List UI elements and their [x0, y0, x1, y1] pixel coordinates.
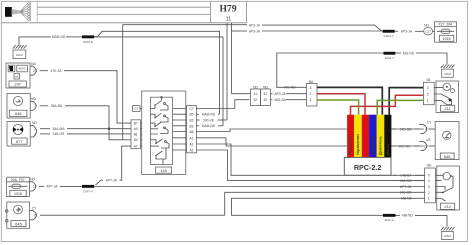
svg-text:ND: ND — [424, 23, 429, 27]
svg-text:14A-GA: 14A-GA — [400, 179, 413, 183]
svg-text:36G-BA: 36G-BA — [274, 98, 287, 102]
svg-text:C27: C27 — [425, 30, 431, 34]
wire AP3-JA (connector to BA pin2) — [232, 92, 307, 96]
fuse F27 20A box — [435, 22, 457, 42]
svg-text:1: 1 — [427, 99, 429, 103]
svg-text:CY: CY — [32, 206, 37, 210]
svg-text:B4: B4 — [426, 78, 430, 82]
wire black BA pin3 to RPC and 211 pin3 — [317, 87, 423, 114]
wire labels into 212: 14B-BJ — [393, 174, 425, 178]
wire label AP7-JA at 212 — [400, 185, 412, 189]
wire MB-ND to ground bottom right — [396, 214, 448, 227]
svg-text:MAM: MAM — [444, 234, 451, 238]
svg-text:6: 6 — [34, 214, 36, 218]
ground MAM (top right) — [441, 65, 455, 78]
svg-text:Отопитель: Отопитель — [371, 135, 375, 155]
svg-text:B3: B3 — [190, 124, 194, 128]
connector ENG-4 (black splice) — [384, 52, 396, 60]
svg-text:ND: ND — [263, 85, 268, 89]
svg-text:CAF7-4: CAF7-4 — [83, 190, 93, 194]
ground MB (bottom right) — [441, 227, 455, 240]
svg-text:23: 23 — [33, 69, 37, 73]
component 247 instrument cluster box — [6, 63, 30, 88]
svg-text:MB-ND: MB-ND — [401, 197, 412, 201]
svg-text:14D-GB: 14D-GB — [400, 127, 413, 131]
svg-text:MA: MA — [31, 97, 37, 101]
svg-text:MAM: MAM — [16, 53, 23, 57]
svg-text:645: 645 — [15, 111, 22, 116]
pins 2,3 / ND of 677 — [30, 121, 37, 137]
svg-text:AP7-JA: AP7-JA — [400, 185, 412, 189]
pin 13 / ND of F07 — [30, 177, 37, 191]
svg-text:11: 11 — [226, 17, 231, 23]
wire pin A3 to 14B-BJ run — [197, 144, 425, 175]
svg-text:ND: ND — [427, 164, 432, 168]
svg-text:B7: B7 — [134, 121, 138, 125]
inline connector R 31/32 (two halves) — [251, 85, 271, 105]
svg-text:CY: CY — [427, 121, 432, 125]
svg-text:24: 24 — [424, 144, 428, 148]
svg-text:3: 3 — [428, 185, 430, 189]
svg-text:MAM-ND: MAM-ND — [52, 35, 66, 39]
wire 300-VE riser (H79 pin to B2) — [226, 25, 228, 120]
wire 645 pin6 to 14C riser — [40, 192, 225, 215]
component 677 box — [7, 122, 30, 147]
svg-text:677: 677 — [16, 139, 23, 144]
svg-text:20A F07: 20A F07 — [11, 178, 25, 182]
connector ENM-B (black splice) — [82, 35, 94, 44]
wire 47K-1A (247 to pin B7) — [40, 69, 132, 123]
RPC-2.2 resistor legend colored bars — [347, 115, 391, 158]
svg-text:247: 247 — [14, 82, 21, 87]
svg-text:1: 1 — [428, 197, 430, 201]
wire MAM-ND branch lower (to pin B3) — [94, 37, 223, 126]
component 145 heater control unit box — [142, 91, 186, 175]
legend harness symbol box (top-left) — [1, 1, 246, 23]
145 left pin bracket B7 A4 B1 B4 A7 — [131, 120, 142, 149]
wire label 14A-GA — [393, 179, 425, 183]
wire 24B-GR (677 pin 3 to pin B1) — [40, 132, 131, 136]
svg-text:24B-GR: 24B-GR — [53, 132, 66, 136]
svg-text:B4: B4 — [134, 138, 138, 142]
wire 34C-NC label — [392, 144, 419, 148]
motor 211 heater blower box — [436, 81, 459, 113]
svg-text:MG-ND: MG-ND — [403, 51, 415, 55]
wire 36A-BA (645 to junction) — [40, 104, 132, 140]
svg-text:MAM: MAM — [444, 72, 451, 76]
svg-text:2: 2 — [310, 92, 312, 96]
svg-text:ADAC: ADAC — [18, 67, 25, 71]
svg-text:34C-NC: 34C-NC — [399, 144, 412, 148]
pin 23 / ND of 247 — [30, 62, 37, 75]
component 645 heater control (upper left) box — [7, 94, 30, 119]
wire AP7-JA (F07 to CAF7-4) — [39, 185, 82, 189]
svg-text:36A-MA: 36A-MA — [53, 127, 66, 131]
junction 36A — [108, 128, 110, 130]
svg-text:ENG-A: ENG-A — [385, 218, 394, 222]
svg-text:A6: A6 — [190, 130, 194, 134]
connector CAF3-4 (black splice) — [383, 30, 395, 38]
svg-text:AP3-JA: AP3-JA — [249, 29, 261, 33]
svg-text:ENG-4: ENG-4 — [385, 56, 394, 60]
svg-text:ND: ND — [253, 85, 258, 89]
wire pin A1 to 34C-NC run — [197, 138, 424, 146]
svg-text:2: 2 — [34, 127, 36, 131]
wire 14D-GB label — [392, 127, 419, 131]
svg-text:7: 7 — [34, 104, 36, 108]
wire pin A6 to 14D-GB run — [197, 129, 424, 132]
wire MAM-ND branch upper (to pin B5) — [94, 31, 220, 114]
svg-text:1: 1 — [310, 98, 312, 102]
svg-text:4: 4 — [428, 179, 430, 183]
svg-text:Подсветка: Подсветка — [349, 135, 353, 155]
svg-text:MAM-ND: MAM-ND — [202, 124, 216, 128]
wire AP7-JA main run to 212 pin 3 — [94, 186, 424, 188]
svg-text:14C-GR: 14C-GR — [399, 191, 412, 195]
svg-text:AP7-JA: AP7-JA — [46, 185, 58, 189]
connector CAF7-4 (black splice) — [82, 185, 94, 194]
connector B4 3/2/1 of motor 211 — [423, 78, 436, 105]
145 right pin bracket C7 B5 B2 B3 A6 A1 A3 A2 — [186, 106, 197, 153]
connector ENG-A (black splice) — [383, 214, 396, 222]
svg-text:211: 211 — [444, 106, 451, 111]
svg-text:RPC-2.2: RPC-2.2 — [354, 163, 382, 172]
svg-text:145: 145 — [160, 168, 167, 173]
svg-text:47K-1A: 47K-1A — [51, 69, 63, 73]
wire AP7-JA branch to pin A7 — [96, 146, 132, 185]
ground MAM (left) — [13, 45, 27, 58]
svg-text:MAM-ND: MAM-ND — [202, 113, 216, 117]
svg-text:31: 31 — [254, 92, 258, 96]
svg-text:14B-BJ: 14B-BJ — [400, 174, 411, 178]
svg-text:AP3-JA: AP3-JA — [401, 30, 413, 34]
svg-text:300-VE: 300-VE — [203, 118, 215, 122]
svg-text:645: 645 — [444, 154, 451, 159]
pin 6 / CY of 645 bottom — [30, 206, 38, 219]
wire label MB-ND — [401, 197, 412, 201]
svg-text:36A-BA: 36A-BA — [51, 104, 63, 108]
wire AP3-JA to fuse F27 — [395, 30, 424, 34]
svg-text:ND: ND — [31, 62, 36, 66]
component 645 right (control) box — [435, 122, 459, 160]
wire 14C-GR run to 212 pin 2 — [225, 191, 425, 193]
svg-text:A3: A3 — [190, 143, 194, 147]
svg-text:C7: C7 — [189, 107, 193, 111]
wire 36A-MA (677 pin 2 to pin A4) — [40, 127, 131, 131]
svg-text:MG-ND: MG-ND — [284, 86, 296, 90]
pin C27 of fuse holder — [424, 23, 435, 35]
svg-text:3: 3 — [310, 86, 312, 90]
svg-text:4: 4 — [425, 127, 427, 131]
fuse F07 20A box (bottom left) — [7, 177, 30, 196]
svg-text:Управление: Управление — [356, 134, 360, 155]
svg-text:5: 5 — [428, 174, 430, 178]
motor 212 box — [437, 166, 460, 210]
svg-text:645: 645 — [15, 221, 22, 226]
wire 36G-BA (connector to BA pin1) — [271, 98, 307, 102]
svg-text:Двигатель: Двигатель — [378, 135, 382, 155]
svg-text:1016: 1016 — [443, 37, 451, 41]
svg-text:B5: B5 — [190, 113, 194, 117]
wire pin A2 to 14A-GA run — [197, 150, 425, 181]
svg-text:AP3-JA: AP3-JA — [249, 24, 261, 28]
svg-text:ND: ND — [32, 121, 37, 125]
svg-text:A2: A2 — [190, 149, 194, 153]
svg-text:AP7-JA: AP7-JA — [106, 179, 118, 183]
145 internal switch contacts — [151, 96, 186, 164]
pin 4 / CY of 645 right — [419, 121, 435, 134]
wire C7 to connector pin 32 (36G) — [197, 100, 250, 109]
wire green BA pin1 to RPC and 211 pin1 — [317, 100, 423, 115]
connector BA 3/2/1 — [307, 80, 318, 106]
svg-text:32: 32 — [254, 98, 258, 102]
wire AP3-JA from H79 pin 11 — [232, 25, 383, 94]
svg-text:212: 212 — [444, 204, 451, 209]
connector ND 5/4/3/2/1 of motor 212 — [425, 164, 437, 203]
wire MB-ND from 212 pin1 down to ENG-A — [232, 198, 425, 215]
wire 300-VE at pin B2 — [197, 118, 228, 122]
svg-text:C7: C7 — [134, 107, 138, 111]
svg-text:AA: AA — [15, 75, 19, 79]
svg-text:A7: A7 — [134, 144, 138, 148]
wire MAM-ND at pin B3 — [197, 124, 224, 128]
pin 24 / VE of 645 right — [419, 138, 435, 151]
svg-text:13: 13 — [33, 185, 37, 189]
wire MG-ND to ground (top right) — [395, 51, 447, 64]
wire red BA pin2 to RPC and 211 pin2 — [317, 94, 423, 115]
svg-text:A4: A4 — [134, 127, 138, 131]
svg-text:MB-ND: MB-ND — [402, 214, 413, 218]
svg-text:32: 32 — [264, 98, 268, 102]
svg-text:CAF3-4: CAF3-4 — [384, 34, 394, 38]
svg-text:B2: B2 — [190, 119, 194, 123]
svg-text:H79: H79 — [219, 4, 236, 15]
svg-text:3: 3 — [427, 86, 429, 90]
wire AP3-JA upper branch (from pin B4 riser along top) — [123, 24, 382, 140]
svg-text:F27 20A: F27 20A — [439, 23, 453, 27]
svg-text:2: 2 — [428, 191, 430, 195]
component 645 (bottom left, blower switch) box — [6, 202, 30, 228]
svg-text:ND: ND — [30, 177, 35, 181]
svg-text:B1: B1 — [134, 132, 138, 136]
pin 7 / MA of 645 — [30, 97, 37, 110]
svg-text:3: 3 — [34, 132, 36, 136]
wire MAM-ND from ground to ENM-B — [19, 35, 82, 46]
svg-text:31: 31 — [264, 92, 268, 96]
svg-text:Масса: Масса — [386, 143, 390, 155]
svg-text:AP3-JA: AP3-JA — [274, 92, 286, 96]
wire label 14C-GR — [399, 191, 412, 195]
svg-text:ENM-B: ENM-B — [83, 40, 92, 44]
legend band wires to H79 — [37, 7, 210, 14]
wire MG-ND (ENG-4 left segment down to connector R) — [277, 53, 384, 90]
RPC-2.2 label box — [344, 157, 391, 175]
svg-text:2: 2 — [427, 92, 429, 96]
harness title box H79 — [211, 1, 247, 24]
svg-text:1016: 1016 — [14, 192, 22, 196]
svg-text:A1: A1 — [190, 136, 194, 140]
wire MAM-ND at pin B5 — [197, 113, 220, 117]
145 left pin bracket C7 — [133, 106, 142, 112]
